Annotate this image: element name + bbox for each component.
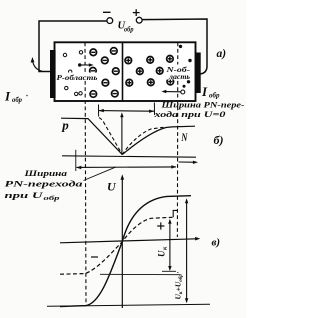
- acceptor ion A2: [111, 48, 118, 55]
- b) baseline: [62, 156, 196, 157]
- electron e5: [186, 72, 189, 75]
- b) dashed boundary right (U=0): [122, 127, 164, 154]
- donor ion D6: [126, 79, 133, 86]
- wire left lead from minus terminal to left electrode: [39, 21, 107, 72]
- svg-text:хода при U=0: хода при U=0: [153, 109, 226, 119]
- v) plus region marker: [157, 225, 164, 227]
- svg-text:N: N: [181, 130, 189, 144]
- acceptor ion A4: [90, 68, 97, 75]
- v) step at dashed plateau end: [173, 210, 178, 217]
- b) baseline right arrow: [179, 161, 194, 163]
- hole h6: [79, 92, 82, 95]
- donor ions (circled plus): [125, 56, 174, 86]
- donor ion D7: [148, 79, 155, 86]
- svg-text:обр: обр: [44, 195, 61, 202]
- acceptor ion A3: [102, 57, 109, 64]
- label Uk rotated: [157, 246, 169, 257]
- donor ion D1: [125, 57, 132, 64]
- wire right lead from plus terminal to right electrode: [142, 19, 207, 74]
- terminal circle plus: [136, 17, 142, 23]
- dimension end tick left: [75, 150, 77, 171]
- b) solid boundary right curve and plateau: [122, 126, 195, 154]
- v) Uk dimension line: [169, 221, 171, 270]
- b) junction up arrow: [121, 116, 123, 155]
- svg-text:Ширина PN-пере-: Ширина PN-пере-: [160, 99, 244, 109]
- v) thin level line at dashed bottom: [100, 273, 180, 275]
- device body rectangle: [55, 42, 196, 101]
- terminal circle minus: [107, 18, 113, 24]
- depletion boundary right dashed (runs down to axis): [176, 43, 178, 238]
- label P-oblast: [56, 73, 98, 82]
- electrons (black dots) in N region: [179, 45, 192, 88]
- left electrode (black bar): [50, 50, 56, 98]
- hole h4: [65, 86, 68, 89]
- svg-text:·: ·: [174, 271, 183, 273]
- acceptor ion A6: [102, 79, 109, 86]
- minus sign above left terminal: [103, 11, 111, 13]
- donor ion D3: [167, 56, 174, 63]
- donor ion D2: [147, 57, 154, 64]
- svg-text:p: p: [61, 117, 69, 132]
- v) solid potential curve: [60, 196, 191, 307]
- right electrode (black bar): [195, 53, 200, 94]
- hole h1: [63, 53, 66, 56]
- junction metallurgical line: [122, 43, 124, 102]
- v) Uk dimension bottom tick: [162, 270, 176, 272]
- svg-text:PN-перехода: PN-перехода: [5, 178, 84, 188]
- depletion boundary left dashed (runs down into diagrams): [85, 43, 86, 307]
- minority carrier circle with left arrow in N region: [181, 90, 185, 94]
- svg-text:Р-область: Р-область: [57, 73, 98, 82]
- svg-text:обр: обр: [209, 92, 220, 100]
- plus sign above right terminal: [133, 12, 140, 14]
- b) solid boundary left plateau and slope: [61, 118, 122, 154]
- donor ion D4: [137, 68, 144, 75]
- electron e3: [187, 80, 190, 83]
- svg-text:обр: обр: [177, 274, 184, 282]
- v) horizontal axis: [60, 239, 197, 243]
- minority carrier dot with right arrow in P region: [78, 63, 81, 66]
- svg-text:I: I: [4, 89, 11, 104]
- label N-oblast: [165, 65, 191, 81]
- v) minus region marker: [91, 256, 98, 258]
- donor ion D8: [167, 78, 174, 85]
- v) Uk+Uobr dimension line: [186, 200, 188, 302]
- hole h3: [69, 70, 72, 73]
- b) bottom width dimension (U obr): [77, 166, 177, 169]
- v) vertical axis U: [121, 178, 123, 308]
- svg-text:при U: при U: [5, 190, 44, 200]
- svg-text:обр: обр: [12, 96, 22, 104]
- svg-text:б): б): [214, 133, 224, 147]
- electron e1: [179, 45, 182, 48]
- holes (open small circles) in P region: [63, 51, 82, 96]
- leader from width text to dimension: [84, 167, 117, 181]
- acceptor ion A8: [112, 90, 119, 97]
- b) top dimension end ticks: [98, 105, 100, 117]
- svg-text:I: I: [201, 84, 208, 99]
- v) dashed potential curve: [60, 217, 173, 274]
- donor ion D5: [156, 68, 163, 75]
- acceptor ions (circled minus): [90, 48, 120, 98]
- label Uk+Uobr rotated: [174, 271, 185, 299]
- hole h5: [75, 92, 78, 95]
- b) dashed boundary left (U=0): [99, 118, 122, 155]
- curved arrow current direction left: [33, 61, 43, 72]
- hole h2: [79, 51, 82, 54]
- acceptor ion A5: [113, 68, 120, 75]
- v) bottom level line: [47, 304, 210, 306]
- svg-text:U: U: [107, 180, 117, 194]
- acceptor ion A1: [90, 49, 97, 56]
- b) top width dimension line (U=0): [99, 110, 155, 113]
- svg-text:в): в): [212, 237, 221, 249]
- electron e2: [188, 59, 191, 62]
- svg-text:обр: обр: [124, 26, 134, 34]
- svg-text:а): а): [217, 48, 227, 60]
- electron e4: [183, 85, 186, 88]
- svg-text:U: U: [157, 250, 167, 257]
- svg-text:ласть: ласть: [168, 73, 190, 81]
- svg-text:Ширина: Ширина: [23, 168, 68, 178]
- acceptor ion A7: [90, 91, 97, 98]
